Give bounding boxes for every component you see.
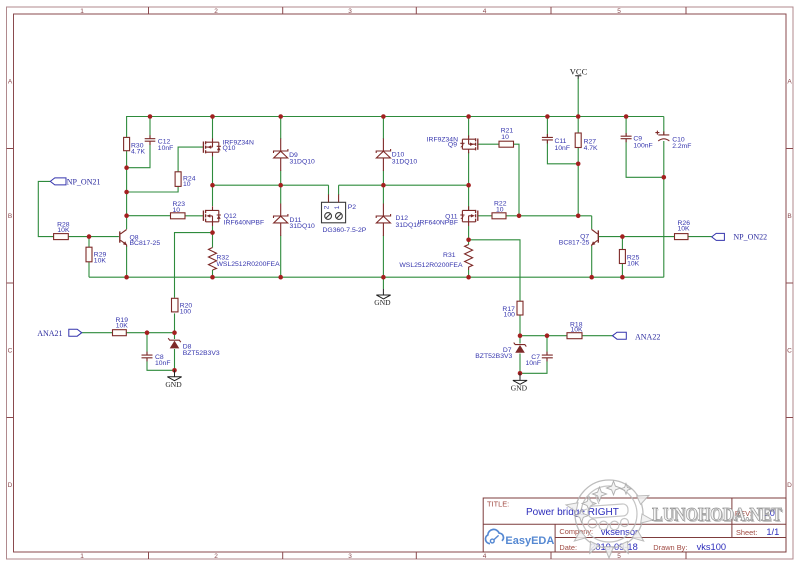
wire R21 to R22 junction [514,144,520,216]
svg-text:2: 2 [214,8,218,15]
svg-text:Q9: Q9 [448,142,457,149]
svg-text:4: 4 [483,553,487,560]
wire D7 leads [519,336,521,374]
label D10 value [392,152,418,166]
resistor R24 [175,172,181,187]
wire C9 top stub [625,117,627,137]
diode D10 [376,139,390,172]
svg-text:100: 100 [504,312,516,319]
svg-text:R31: R31 [443,252,456,259]
svg-text:ANA21: ANA21 [37,329,62,338]
svg-text:GND: GND [165,380,182,389]
capacitor C7 [542,352,553,362]
resistor R19 [113,330,127,336]
svg-text:31DQ10: 31DQ10 [290,223,316,230]
capacitor C8 [142,352,153,362]
wire R25 vertical stubs [621,237,623,278]
resistor R31 shunt [465,245,473,271]
svg-text:A: A [787,79,792,86]
label D12 value [396,215,422,229]
diode D12 [376,204,390,237]
wire C11 top stub [546,117,548,138]
svg-text:3: 3 [348,8,352,15]
junction dots ANA22 net [518,333,550,375]
capacitor C10 polarized [655,131,669,141]
junction dots mid rail [210,183,471,188]
junction dots source rows [210,230,471,242]
svg-text:BC817-25: BC817-25 [130,240,161,247]
wire Q10 gate to R24 [178,147,203,172]
wire D12 vertical leads [382,185,384,277]
label R17 value [502,306,515,319]
svg-text:10nF: 10nF [155,360,171,367]
label R28 value [57,222,70,234]
watermark text LUNOHODA.NET [652,505,784,527]
transistor Q7 [591,229,598,246]
svg-text:10K: 10K [678,226,691,233]
wire P2 pin1 drop [338,185,340,195]
net flag ANA21 [69,329,82,336]
svg-text:NP_ON22: NP_ON22 [733,233,767,242]
junction dots top rail [148,114,629,119]
label D8 value [183,343,220,357]
svg-text:31DQ10: 31DQ10 [392,158,418,165]
svg-text:GND: GND [374,298,391,307]
svg-text:2.2mF: 2.2mF [672,143,691,150]
svg-text:WSL2512R0200FEA: WSL2512R0200FEA [217,261,281,268]
label R31 value [399,252,463,269]
wire VCC flag stub [577,78,579,117]
wire P2 pin2 drop [328,185,330,195]
net flag ANA22 [613,332,627,339]
resistor R22 [492,213,506,219]
ground symbol left [165,370,182,389]
svg-text:10K: 10K [116,323,129,330]
label Q7 name [559,234,590,247]
svg-text:2: 2 [214,553,218,560]
label D11 value [290,217,316,230]
svg-text:4.7K: 4.7K [584,145,598,152]
wire Q11 source row to R17 column [469,240,520,301]
resistor R28 [54,234,69,240]
wire Q8 emitter stub [126,246,128,277]
wire C11 bottom to R27 bottom [547,140,578,164]
label D7 value [475,347,512,360]
wire D10 bottom lead [382,171,384,186]
wire R17 bottom stub [519,315,521,336]
label C7 value [526,354,542,367]
svg-text:BZT52B3V3: BZT52B3V3 [183,350,220,357]
resistor R18 [567,333,582,339]
wire C7 top stub [546,336,548,355]
svg-text:P2: P2 [348,204,357,211]
resistor R26 [675,234,689,240]
svg-text:10: 10 [173,207,181,214]
P2 pin leads [329,195,339,203]
wire R32 stubs [212,233,214,278]
svg-text:ANA22: ANA22 [635,332,660,341]
wire Q10 source stub [212,117,214,139]
transistor Q9 mosfet [460,135,478,153]
svg-text:vks100: vks100 [697,542,726,552]
ground symbol right [511,373,528,392]
svg-text:10nF: 10nF [555,145,571,152]
wire mid rail left segment [213,184,329,186]
resistor R27 [575,133,581,148]
resistor R25 [619,250,625,264]
wire R20 bottom stub [174,313,176,332]
junction dot R28 R29 [87,234,92,239]
svg-text:100nF: 100nF [633,142,652,149]
junction dots R21 R27 rows [517,162,666,239]
wire R23 row left [127,215,171,217]
connector P2 [322,202,346,223]
svg-text:BC817-25: BC817-25 [559,240,590,247]
wire D9 bottom lead [280,171,282,186]
label R18 value [570,321,583,333]
wire D10 top lead [382,117,384,140]
wire Q11 gate to R22 [478,215,492,217]
ground symbol mid [374,289,391,307]
junction dots R30 column [124,165,129,218]
svg-text:Sheet:: Sheet: [736,528,757,537]
svg-text:DG360-7.5-2P: DG360-7.5-2P [323,227,367,234]
capacitor C11 [542,134,553,144]
svg-text:5: 5 [617,553,621,560]
wire R30 line segment [126,151,128,230]
label R24 value [183,176,196,188]
svg-text:Drawn By:: Drawn By: [653,543,687,552]
label Q8 name [130,234,161,247]
label R25 value [627,255,640,268]
wire Q7 collector drop [591,216,593,229]
junction dots bottom rail [124,275,624,280]
wire Q12 source row to R20 column [175,233,213,298]
svg-text:10nF: 10nF [158,145,174,152]
diode D9 [274,139,288,172]
net flag NP_ON22 [712,233,725,240]
svg-text:B: B [787,213,791,220]
svg-text:10nF: 10nF [526,360,542,367]
label C9 value [633,136,652,150]
wire C7 bottom to GND junction [520,358,547,374]
label R21 value [501,128,514,142]
svg-text:10: 10 [183,181,191,188]
svg-text:2: 2 [323,205,330,209]
power flag VCC [570,67,588,79]
transistor Q12 mosfet [203,206,221,226]
wire Q12 drain stub [212,185,214,206]
svg-text:10K: 10K [57,227,70,234]
svg-text:C: C [787,348,792,355]
wire bottom rail [89,276,664,278]
wire R27 top stub [577,117,579,134]
svg-text:1: 1 [80,553,84,560]
label R30 value [131,143,145,156]
svg-text:WSL2512R0200FEA: WSL2512R0200FEA [399,262,463,269]
wire D9 top lead [280,117,282,140]
svg-text:D: D [787,482,792,489]
wire R26 to NP_ON22 [688,236,712,238]
wire R24 bottom row [127,186,179,192]
wire R23 to Q12 gate [185,215,203,217]
resistor R30 [124,137,130,150]
capacitor C12 [145,135,156,145]
svg-text:1: 1 [334,205,341,209]
resistor R20 [172,298,179,312]
svg-text:Company:: Company: [559,527,593,536]
wire C10 bottom column [663,141,665,277]
svg-text:10: 10 [501,134,509,141]
watermark emblem [566,480,653,558]
wire R31 stubs [468,240,470,277]
wire C10 top stub [663,117,665,135]
wire C8 bottom to GND junction [147,358,175,371]
wire R29 top stub [88,237,90,248]
title block table [483,498,786,552]
svg-text:31DQ10: 31DQ10 [290,159,316,166]
wire Q8 base row [68,236,119,238]
svg-text:LUNOHODA.NET: LUNOHODA.NET [652,505,782,526]
transistor Q8 [120,230,127,247]
label R26 value [678,220,691,233]
svg-text:1: 1 [80,8,84,15]
svg-text:IRF640NPBF: IRF640NPBF [418,220,458,227]
svg-text:4.7K: 4.7K [131,148,145,155]
label R29 value [94,252,107,265]
svg-text:IRF640NPBF: IRF640NPBF [224,220,264,227]
label Q10 name [223,139,254,152]
junction dots ANA21 net [145,330,177,372]
wire Q11 source to junction [468,226,470,240]
diode D7 zener [514,343,527,353]
wire D8 leads [174,333,176,371]
svg-text:10K: 10K [94,257,107,264]
label D9 value [289,152,315,166]
label R19 value [116,317,129,330]
resistor R29 [86,247,92,262]
wire C9 bottom to C10 column [626,139,664,178]
wire R27 bottom to collector row [577,148,579,216]
svg-text:5: 5 [617,8,621,15]
transistor Q11 mosfet [460,206,478,226]
wire Q9 gate to R21 [478,143,499,145]
svg-text:NP_ON21: NP_ON21 [67,177,101,186]
label Q9 name [427,136,458,148]
wire R30 bottom to C12 bottom [127,142,150,167]
label C11 value [555,138,571,152]
wire ANA21 row [82,332,175,334]
svg-text:VCC: VCC [570,67,588,77]
label Q11 name [418,214,458,227]
wire Q12 source to junction [212,226,214,233]
svg-text:A: A [8,79,13,86]
svg-text:3: 3 [348,553,352,560]
svg-text:10K: 10K [571,327,584,334]
wire D11 vertical leads [280,185,282,277]
wire ANA22 row [520,335,613,337]
svg-text:C: C [8,348,13,355]
wire Q7 base row [598,236,674,238]
resistor R32 shunt [209,248,217,271]
label C8 value [155,354,171,367]
resistor R23 [171,213,186,219]
svg-text:Q10: Q10 [223,145,236,152]
label R20 value [180,302,193,315]
svg-text:4: 4 [483,8,487,15]
diode D11 [274,204,288,237]
svg-text:GND: GND [511,384,528,393]
resistor R21 [499,141,514,147]
diode D8 zener [168,338,181,348]
svg-text:TITLE:: TITLE: [487,499,509,508]
resistor R17 [517,301,523,315]
svg-text:1/1: 1/1 [766,527,779,537]
svg-text:Date:: Date: [559,543,577,552]
label R32 value [217,254,281,268]
wire Q9 drain to Q11 drain [468,152,470,210]
svg-text:B: B [8,213,12,220]
label C10 value [672,137,691,150]
label C12 value [158,138,174,152]
P2 pin numbers [323,205,341,209]
svg-text:EasyEDA: EasyEDA [505,535,554,547]
net flag NP_ON21 [50,178,66,185]
wire mid rail right segment [339,184,469,186]
wire NP_ON21 to R28 [38,181,53,236]
label R27 value [584,138,598,152]
wire Q10 drain to mid rail [212,156,214,185]
wire R29 bottom stub [88,262,90,277]
wire C8 top stub [146,333,148,355]
svg-text:D: D [8,482,13,489]
wire R22 to R27 column [506,215,592,217]
wire Q9 source stub [468,117,470,138]
label Q12 name [224,213,264,227]
transistor Q10 mosfet [203,138,221,156]
svg-text:10: 10 [496,206,504,213]
svg-text:10K: 10K [627,260,640,267]
svg-text:100: 100 [180,308,192,315]
svg-text:BZT52B3V3: BZT52B3V3 [475,353,512,360]
wire C12 top stub [149,117,151,140]
wire GND mid stub [382,277,384,289]
EasyEDA logo [485,529,554,547]
capacitor C9 [621,133,632,142]
wire VCC top rail [127,117,664,138]
wire Q7 emitter stub [591,246,593,278]
label R23 value [173,201,186,214]
label R22 value [494,200,507,213]
